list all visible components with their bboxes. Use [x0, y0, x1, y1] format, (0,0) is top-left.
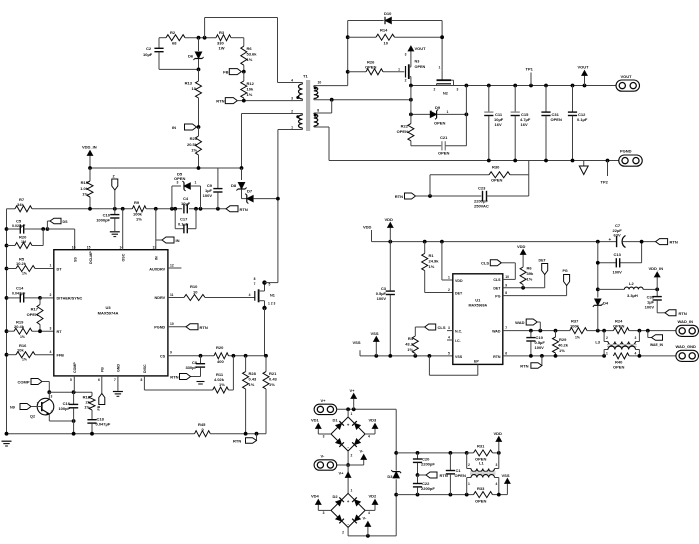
svg-text:IN: IN: [172, 125, 176, 130]
bridge D1 frame: [323, 412, 370, 458]
svg-text:VDD_IN: VDD_IN: [649, 266, 664, 271]
flag RTN c23: [395, 193, 430, 199]
svg-text:1: 1: [351, 489, 353, 493]
capacitor C23: [474, 175, 529, 209]
svg-text:R31: R31: [477, 444, 485, 449]
svg-text:L3: L3: [595, 340, 600, 345]
svg-text:0.1µF: 0.1µF: [178, 221, 189, 226]
svg-text:3: 3: [50, 327, 52, 331]
svg-text:OPEN: OPEN: [491, 178, 502, 183]
svg-text:400: 400: [217, 359, 224, 364]
capacitor C21: [411, 86, 467, 156]
svg-text:1%: 1%: [22, 272, 27, 276]
wire d1 top: [347, 409, 349, 417]
wire link to pin4 riser: [204, 18, 206, 38]
diode D3: [387, 470, 401, 479]
svg-text:RTN: RTN: [170, 374, 178, 379]
svg-text:RTN: RTN: [216, 99, 224, 104]
power arrow VOUT N3: [408, 46, 426, 54]
svg-text:330pF: 330pF: [185, 365, 197, 370]
svg-text:3.3µH: 3.3µH: [627, 293, 638, 298]
svg-text:VDD: VDD: [494, 431, 503, 436]
wire pin13 IN column: [155, 209, 157, 250]
svg-text:V-: V-: [321, 454, 325, 459]
resistor R21: [187, 127, 202, 168]
wire R3 to R6: [231, 38, 244, 47]
svg-text:DITHER/SYNC: DITHER/SYNC: [57, 297, 83, 301]
power arrow V+ link: [339, 471, 351, 478]
svg-text:10µF: 10µF: [143, 52, 153, 57]
resistor R20: [7, 229, 44, 249]
svg-text:1: 1: [398, 68, 400, 72]
svg-text:2: 2: [50, 293, 52, 297]
capacitor C17 loop: [175, 209, 196, 234]
svg-text:2: 2: [430, 110, 432, 114]
svg-text:1%: 1%: [136, 217, 142, 222]
wire VDD_IN clamp row: [88, 166, 241, 170]
svg-text:N9: N9: [10, 406, 15, 410]
svg-text:2: 2: [291, 110, 293, 114]
svg-text:C21: C21: [440, 135, 448, 140]
wire AUXDRV stub: [168, 267, 182, 269]
capacitor C30: [645, 289, 662, 312]
wire rect right col: [394, 409, 398, 536]
power arrow VD1: [311, 418, 331, 435]
svg-text:RTN: RTN: [233, 439, 241, 444]
transformer L3: [595, 331, 639, 356]
svg-text:1%: 1%: [407, 347, 413, 352]
svg-text:2: 2: [606, 336, 608, 340]
svg-text:D2: D2: [333, 494, 339, 499]
svg-text:R17: R17: [31, 307, 39, 312]
wire row208 c: [189, 207, 226, 211]
svg-text:R4: R4: [408, 336, 414, 341]
svg-text:5: 5: [70, 378, 72, 382]
svg-text:FB: FB: [223, 70, 228, 75]
svg-text:I.C.: I.C.: [455, 339, 461, 343]
wire VDD rail: [372, 240, 617, 244]
svg-text:100V: 100V: [535, 345, 545, 350]
svg-text:R3: R3: [219, 30, 225, 35]
flag RTN c2022: [418, 472, 448, 478]
svg-text:1%: 1%: [247, 57, 253, 62]
svg-text:2: 2: [468, 463, 470, 467]
resistor R7: [7, 197, 33, 212]
resistor R45: [195, 422, 211, 437]
power arrow V+: [350, 388, 357, 409]
flag RTN pin3: [216, 98, 237, 104]
svg-text:R13: R13: [185, 81, 193, 86]
resistor R33: [474, 486, 508, 504]
svg-text:R6: R6: [247, 46, 253, 51]
power arrow VSS l1: [502, 473, 511, 495]
wire pins9-8 tie: [331, 100, 333, 113]
wire pin4 stub: [447, 339, 453, 341]
wire comp row: [49, 390, 92, 394]
resistor R16: [7, 343, 54, 362]
svg-text:V+: V+: [339, 471, 345, 476]
svg-text:3: 3: [448, 326, 450, 330]
flag RTN c30: [657, 310, 687, 316]
svg-text:CLS: CLS: [481, 260, 489, 265]
svg-text:VDD_IN: VDD_IN: [82, 145, 97, 150]
svg-text:1W: 1W: [219, 46, 225, 51]
op-amp U1 MAX5969A body: [448, 274, 509, 365]
svg-text:1: 1: [50, 264, 52, 268]
svg-text:10: 10: [384, 41, 389, 46]
power arrow VSS: [371, 331, 380, 356]
svg-text:1: 1: [291, 126, 293, 130]
power arrow VOUT bus: [578, 65, 590, 86]
svg-text:R20: R20: [19, 235, 27, 240]
svg-text:6: 6: [505, 352, 507, 356]
resistor R24: [613, 319, 629, 334]
svg-text:D6: D6: [188, 54, 194, 59]
svg-text:R29: R29: [559, 337, 567, 342]
svg-text:D7: D7: [247, 189, 253, 194]
svg-text:OPEN: OPEN: [613, 323, 624, 328]
capacitor C4: [181, 196, 191, 213]
svg-text:VD3: VD3: [369, 418, 378, 423]
capacitor C14: [7, 286, 54, 303]
svg-text:OPEN: OPEN: [551, 117, 562, 122]
wire top row: [205, 17, 278, 19]
wire c23 row: [428, 194, 481, 198]
diode D4: [593, 261, 609, 331]
svg-text:10: 10: [170, 322, 174, 326]
label VSS rail end: [353, 340, 361, 356]
wire RTN row right: [503, 354, 606, 358]
svg-text:OPEN: OPEN: [438, 151, 449, 156]
svg-text:1: 1: [37, 401, 39, 405]
svg-text:2: 2: [51, 410, 53, 414]
svg-text:R14: R14: [380, 28, 388, 33]
svg-text:20.5k: 20.5k: [187, 142, 198, 147]
svg-text:WAE_IN: WAE_IN: [650, 343, 664, 347]
connector PGND: [619, 149, 643, 167]
ground GND pin: [113, 376, 123, 396]
wire bottom bus b: [210, 432, 266, 436]
svg-text:AUXDRV: AUXDRV: [149, 268, 165, 272]
power arrow VD4: [311, 494, 331, 511]
wire VSS rail: [360, 354, 453, 358]
wire v+ row: [337, 407, 397, 411]
capacitor C15: [511, 86, 531, 161]
svg-text:R30: R30: [492, 165, 500, 170]
svg-text:3: 3: [496, 463, 498, 467]
svg-text:1%: 1%: [247, 92, 253, 97]
svg-text:VSS: VSS: [455, 355, 463, 359]
svg-text:40.2k: 40.2k: [558, 343, 569, 348]
svg-text:OPEN: OPEN: [415, 65, 426, 69]
wire WAD_GND row: [629, 354, 676, 358]
svg-text:PG: PG: [495, 294, 500, 298]
svg-text:16V: 16V: [495, 122, 502, 127]
flag RTN C8: [170, 374, 200, 380]
svg-text:FB: FB: [101, 367, 105, 372]
svg-text:1M: 1M: [21, 240, 26, 244]
svg-text:R1: R1: [429, 253, 435, 258]
svg-text:CLS: CLS: [438, 325, 446, 330]
wire c13 loop: [598, 240, 644, 263]
svg-text:4: 4: [249, 293, 251, 297]
flag PG: [563, 269, 570, 286]
capacitor C12: [568, 86, 588, 161]
wire T1 pin2 drop: [240, 114, 244, 170]
svg-text:4: 4: [368, 435, 370, 439]
resistor R6u1: [520, 259, 534, 288]
svg-text:IN: IN: [155, 256, 159, 260]
svg-text:V-: V-: [363, 516, 367, 521]
wire T1 pin3 row: [237, 99, 297, 103]
svg-text:1%: 1%: [191, 148, 197, 153]
power arrow VDD r6: [517, 244, 526, 259]
svg-text:1%: 1%: [84, 405, 90, 410]
wire output bus: [409, 84, 616, 102]
svg-text:1 2 3: 1 2 3: [268, 302, 275, 306]
flag FB: [223, 69, 246, 75]
svg-text:DET: DET: [539, 259, 547, 263]
wire pin7 to gnd bus: [328, 127, 330, 161]
svg-text:1.0k: 1.0k: [80, 186, 89, 191]
svg-text:R6: R6: [527, 266, 533, 271]
capacitor C8: [185, 356, 205, 377]
capacitor C9: [203, 168, 223, 209]
capacitor C22: [413, 475, 435, 495]
capacitor C20: [413, 453, 435, 477]
svg-text:24.9k: 24.9k: [429, 259, 440, 264]
svg-text:0.43: 0.43: [249, 377, 258, 382]
wire EP loop: [429, 356, 477, 375]
svg-text:OPEN: OPEN: [365, 65, 376, 70]
diode D7: [242, 189, 278, 204]
svg-text:9: 9: [170, 351, 172, 355]
power arrow Vminus d2: [363, 516, 371, 536]
resistor R10: [168, 284, 205, 301]
wire comp drop: [47, 382, 51, 395]
svg-text:L2: L2: [629, 281, 634, 286]
resistor R1: [422, 242, 453, 293]
svg-text:2200pF: 2200pF: [421, 462, 435, 467]
power arrow VD3: [365, 418, 378, 435]
svg-text:1: 1: [447, 110, 449, 114]
svg-text:R22: R22: [401, 124, 409, 129]
wire secondary gnd bus: [329, 159, 619, 163]
svg-text:COMP: COMP: [18, 380, 30, 385]
svg-text:VSS: VSS: [371, 331, 379, 336]
svg-text:4: 4: [291, 79, 293, 83]
svg-text:20.4k: 20.4k: [14, 324, 25, 329]
svg-text:DCLMP: DCLMP: [89, 251, 93, 264]
capacitor C31: [541, 86, 562, 161]
svg-text:R20: R20: [216, 345, 224, 350]
svg-text:2200pF: 2200pF: [421, 486, 435, 491]
svg-text:4: 4: [368, 511, 370, 515]
svg-text:EP: EP: [474, 360, 479, 364]
svg-text:FB: FB: [97, 405, 101, 410]
svg-text:100V: 100V: [377, 296, 387, 301]
svg-text:VDD: VDD: [517, 244, 526, 249]
svg-text:100k: 100k: [570, 323, 580, 328]
resistor R17: [27, 298, 43, 331]
svg-text:VD1: VD1: [311, 418, 320, 423]
resistor R30: [430, 161, 529, 196]
svg-text:10k: 10k: [247, 87, 254, 92]
connector V-: [314, 454, 337, 471]
wire pin14 column: [122, 209, 124, 250]
flag RTN vddrail: [656, 239, 678, 245]
svg-text:RTN: RTN: [395, 194, 403, 199]
T1 winding p8-p7: [314, 109, 332, 128]
wire row208 a: [32, 207, 132, 211]
flag N9 base: [10, 404, 33, 410]
capacitor C11: [484, 86, 504, 161]
svg-text:7: 7: [505, 326, 507, 330]
svg-text:3: 3: [635, 336, 637, 340]
svg-text:RTN: RTN: [679, 311, 687, 316]
svg-text:12: 12: [170, 264, 174, 268]
svg-text:100pF: 100pF: [58, 406, 70, 411]
svg-text:V+: V+: [350, 388, 356, 393]
svg-text:10: 10: [505, 275, 509, 279]
svg-text:R12: R12: [247, 81, 255, 86]
svg-text:10: 10: [192, 86, 197, 91]
svg-text:VDD: VDD: [455, 279, 463, 283]
capacitor C13: [613, 252, 623, 275]
transistor N1: [249, 277, 278, 356]
svg-text:VD2: VD2: [369, 494, 378, 499]
svg-text:250VAC: 250VAC: [474, 204, 489, 209]
svg-text:2: 2: [405, 79, 407, 83]
svg-text:8: 8: [141, 378, 143, 382]
flag DS: [47, 218, 68, 229]
flag RTN row208: [226, 206, 248, 212]
flag IN primary: [172, 124, 200, 130]
power arrow VDD_IN l2: [649, 266, 664, 290]
svg-text:RTN: RTN: [493, 355, 501, 359]
wire left rail: [5, 209, 9, 434]
capacitor C7: [609, 223, 656, 248]
resistor R26: [348, 60, 405, 75]
flag DET: [539, 259, 548, 288]
svg-text:10.2k: 10.2k: [16, 261, 27, 266]
resistor R15: [80, 168, 93, 209]
svg-text:DISC: DISC: [143, 364, 147, 373]
svg-text:3: 3: [457, 88, 459, 92]
wire riser to T1 pin4: [277, 18, 279, 83]
svg-text:V+: V+: [321, 398, 327, 403]
bridge D2 frame: [323, 489, 370, 535]
svg-text:RTN: RTN: [200, 325, 208, 330]
svg-text:DET: DET: [493, 287, 501, 291]
svg-text:C2: C2: [146, 46, 152, 51]
wire node R2-D6: [185, 36, 216, 40]
svg-text:3: 3: [291, 97, 293, 101]
resistor R22: [397, 86, 414, 146]
connector VOUT: [616, 74, 640, 91]
svg-text:WAD: WAD: [492, 329, 501, 333]
resistor R13: [185, 69, 202, 127]
capacitor C10: [96, 209, 119, 231]
svg-text:D10: D10: [384, 11, 392, 16]
resistor R11: [213, 356, 234, 393]
resistor R2: [166, 30, 185, 46]
svg-text:9: 9: [505, 283, 507, 287]
wire CS row: [168, 354, 214, 358]
wire riser left sec: [346, 21, 350, 86]
svg-text:0.047µF: 0.047µF: [12, 291, 26, 295]
capacitor C18: [87, 410, 110, 434]
svg-text:Q2: Q2: [30, 415, 35, 419]
wire WAD row b: [587, 329, 613, 333]
svg-text:VOUT: VOUT: [621, 74, 633, 79]
svg-text:1%: 1%: [575, 336, 580, 340]
svg-text:53.6k: 53.6k: [247, 52, 258, 57]
svg-text:D9: D9: [435, 105, 441, 110]
wire DISC row: [144, 376, 212, 390]
svg-text:4: 4: [496, 482, 498, 486]
svg-text:1%: 1%: [219, 382, 225, 387]
svg-text:V-: V-: [360, 449, 364, 454]
svg-text:16V: 16V: [521, 122, 528, 127]
svg-text:6: 6: [98, 378, 100, 382]
connector V+: [314, 398, 337, 415]
wire pin3 stub: [447, 330, 453, 332]
svg-text:OSC: OSC: [122, 253, 126, 261]
svg-text:WAD: WAD: [515, 320, 524, 325]
wire cap row bottom: [396, 493, 473, 497]
svg-text:11: 11: [170, 293, 174, 297]
wire pin8 PG row: [503, 286, 567, 296]
svg-text:R21: R21: [269, 371, 277, 376]
svg-text:0.022µF: 0.022µF: [12, 224, 26, 228]
svg-text:COMP: COMP: [73, 362, 77, 373]
svg-text:SS: SS: [74, 257, 78, 262]
svg-text:R15: R15: [81, 180, 89, 185]
wire bottom bus: [5, 432, 195, 436]
svg-text:RTN: RTN: [520, 364, 528, 369]
svg-text:3: 3: [323, 435, 325, 439]
svg-text:VDD: VDD: [363, 225, 372, 230]
T1 winding p2-p1: [242, 110, 303, 130]
capacitor C5: [7, 219, 50, 234]
capacitor C2: [143, 38, 164, 70]
svg-text:7: 7: [254, 282, 256, 286]
ground triangle: [579, 161, 588, 175]
diode D6: [188, 38, 204, 70]
flag CLS r4: [425, 324, 446, 330]
svg-text:2: 2: [448, 288, 450, 292]
svg-text:1: 1: [195, 181, 197, 185]
svg-text:68: 68: [172, 41, 177, 46]
resistor R5: [7, 257, 54, 276]
svg-text:1: 1: [468, 482, 470, 486]
wire d1 bottom: [346, 451, 350, 467]
connector WAD_GND: [676, 344, 699, 361]
svg-text:PGND: PGND: [154, 326, 165, 330]
resistor R21s: [263, 356, 278, 434]
svg-text:OPEN: OPEN: [434, 121, 445, 126]
svg-text:CLS: CLS: [493, 278, 501, 282]
svg-text:100V: 100V: [203, 193, 213, 198]
resistor R40: [613, 353, 629, 369]
svg-text:63V: 63V: [614, 233, 621, 238]
svg-text:3: 3: [323, 511, 325, 515]
flag RTN u1: [520, 356, 542, 369]
svg-text:DT: DT: [57, 268, 63, 272]
flag COMP: [18, 379, 50, 385]
svg-text:OPEN: OPEN: [613, 364, 624, 369]
